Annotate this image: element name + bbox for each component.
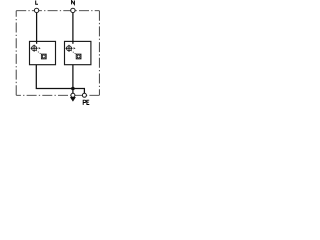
earth arrow: [70, 97, 75, 101]
disconnector symbol (module 1): [30, 44, 46, 58]
terminal L: [34, 8, 38, 12]
linkage dashed (module 2): [71, 50, 76, 54]
actuator arrow (module 2): [74, 47, 76, 49]
label PE: [83, 100, 89, 105]
arrester module 1 (L path) box: [30, 41, 56, 64]
disconnector symbol (module 2): [65, 45, 81, 59]
label N: [72, 1, 75, 5]
junction dot: [71, 87, 75, 91]
label L: [36, 1, 38, 5]
arrester module 2 (N path) box: [65, 41, 91, 64]
fault indicator (module 2): [76, 54, 81, 59]
enclosure dash-dot border: [16, 11, 99, 96]
terminal N: [71, 8, 75, 12]
fault indicator (module 1): [41, 54, 46, 59]
wire module 1 to PE bus and PE terminal: [36, 65, 84, 96]
linkage dashed (module 1): [36, 50, 42, 54]
wire module 2 to earth terminal: [72, 65, 74, 96]
earth terminal: [71, 93, 75, 97]
wire N terminal to module 2: [72, 13, 74, 44]
PE terminal: [82, 93, 86, 97]
actuator arrow (module 1): [39, 47, 41, 49]
wire L terminal to module 1: [36, 13, 38, 44]
